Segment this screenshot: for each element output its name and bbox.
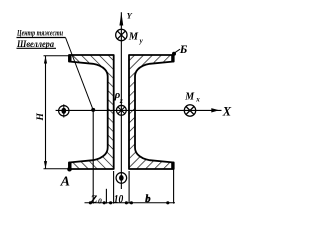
Y axis — [120, 12, 122, 189]
point B dot — [172, 52, 176, 56]
svg-text:Швеллера: Швеллера — [16, 40, 54, 50]
channel section left (hatched profile) — [69, 55, 114, 169]
svg-text:x: x — [195, 95, 200, 103]
svg-text:M: M — [128, 31, 139, 42]
annotation underlines and leader — [17, 37, 66, 39]
flange tip bold blobs — [68, 54, 174, 169]
moment symbol My (circle with cross) — [116, 29, 127, 40]
svg-text:X: X — [222, 104, 232, 118]
svg-text:H: H — [36, 113, 46, 122]
svg-text:z: z — [119, 96, 123, 105]
bottom circled-dot symbol — [116, 173, 127, 184]
svg-text:Y: Y — [127, 11, 133, 21]
svg-text:A: A — [60, 175, 70, 190]
svg-text:Центр тяжести: Центр тяжести — [16, 28, 63, 37]
bottom dimension line — [85, 110, 176, 204]
Y axis arrowhead — [119, 12, 123, 25]
H dimension line — [44, 56, 71, 169]
leader line to channel centroid — [66, 38, 94, 110]
svg-text:M: M — [184, 91, 195, 102]
force symbol Pz (circle with cross at centroid) — [116, 105, 126, 115]
moment symbol Mx (circle with cross) — [184, 105, 195, 116]
centroid point dot — [91, 108, 95, 112]
svg-text:10: 10 — [114, 193, 124, 205]
svg-text:y: y — [139, 37, 144, 45]
svg-text:0: 0 — [98, 197, 102, 206]
leader to point B — [175, 49, 180, 52]
svg-text:Z: Z — [90, 193, 98, 205]
point A dot — [67, 167, 72, 172]
X axis — [56, 109, 222, 111]
channel section right (mirror) — [129, 55, 174, 169]
left circled-dot symbol — [59, 104, 69, 117]
H dimension arrows — [44, 56, 47, 64]
svg-text:b: b — [145, 194, 150, 205]
svg-text:Б: Б — [179, 42, 188, 56]
dimension tick dots — [89, 201, 170, 204]
X axis arrowhead — [211, 108, 219, 112]
